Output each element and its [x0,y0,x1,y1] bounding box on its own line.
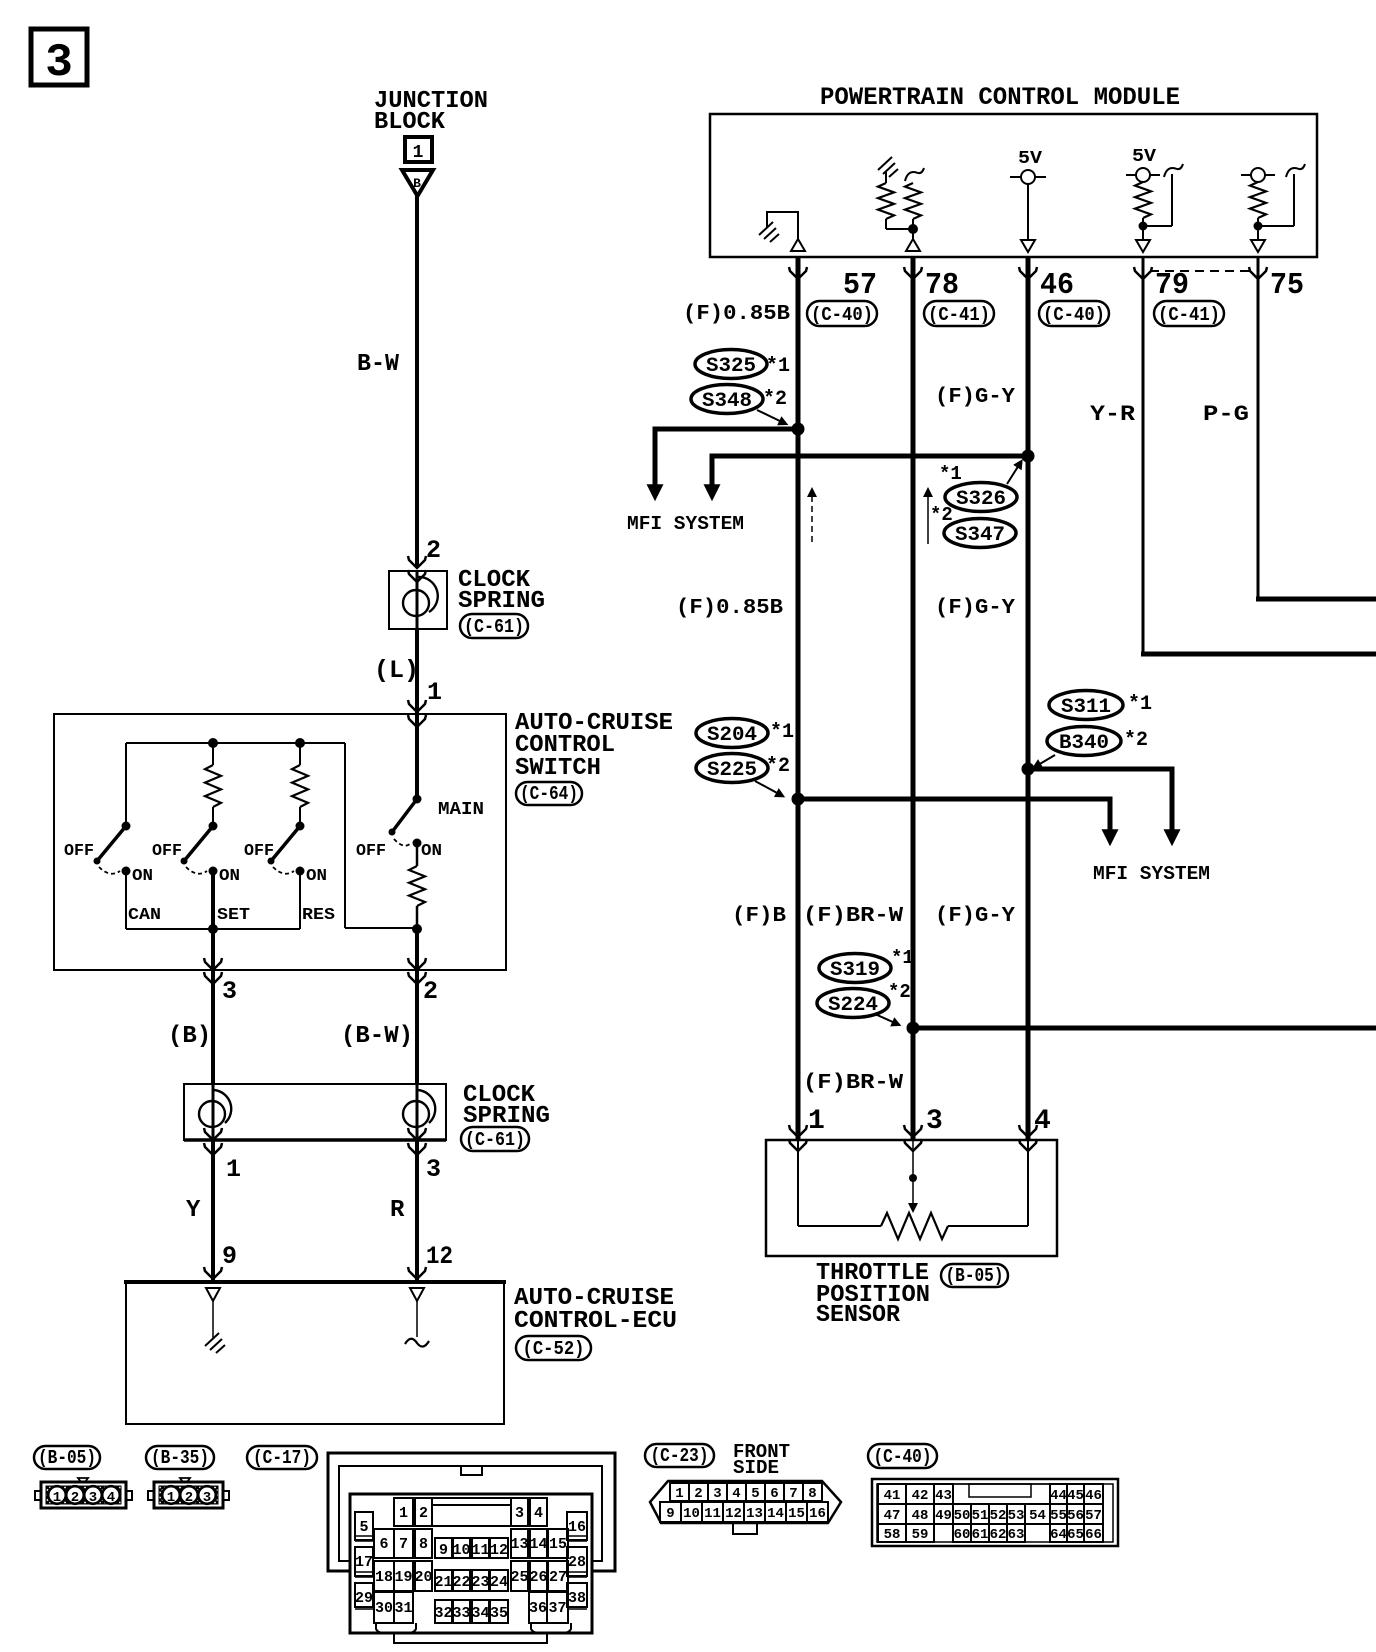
svg-text:42: 42 [912,1488,929,1504]
svg-text:SENSOR: SENSOR [816,1302,901,1329]
svg-text:56: 56 [1067,1508,1084,1524]
svg-text:47: 47 [884,1508,901,1524]
svg-text:30: 30 [375,1600,393,1617]
svg-text:3: 3 [713,1486,721,1502]
svg-text:(C-61): (C-61) [464,616,524,638]
svg-text:(B): (B) [168,1023,211,1050]
svg-text:SIDE: SIDE [733,1457,779,1479]
svg-text:S225: S225 [707,759,757,782]
svg-text:2: 2 [185,1490,193,1506]
svg-text:(B-W): (B-W) [341,1023,413,1050]
svg-text:20: 20 [414,1569,432,1586]
svg-text:ON: ON [219,867,240,886]
svg-text:*2: *2 [766,755,790,778]
svg-text:12: 12 [725,1506,742,1522]
svg-text:31: 31 [394,1600,412,1617]
svg-text:11: 11 [704,1506,721,1522]
svg-text:41: 41 [884,1488,901,1504]
svg-text:4: 4 [534,1505,543,1522]
svg-text:R: R [390,1197,405,1224]
svg-text:46: 46 [1085,1488,1102,1504]
svg-text:54: 54 [1029,1508,1046,1524]
svg-text:46: 46 [1040,268,1074,303]
svg-text:32: 32 [434,1605,452,1622]
svg-text:2: 2 [419,1505,428,1522]
svg-text:64: 64 [1050,1527,1067,1543]
svg-text:16: 16 [568,1519,586,1536]
svg-text:65: 65 [1067,1527,1084,1543]
svg-text:(F)BR-W: (F)BR-W [803,905,903,928]
svg-text:52: 52 [990,1508,1007,1524]
svg-text:(C-23): (C-23) [651,1445,709,1467]
svg-text:62: 62 [990,1527,1007,1543]
svg-text:3: 3 [515,1505,524,1522]
svg-text:(F)0.85B: (F)0.85B [683,303,790,326]
svg-text:61: 61 [972,1527,989,1543]
svg-text:2: 2 [423,977,438,1006]
svg-text:14: 14 [529,1536,547,1553]
svg-text:34: 34 [471,1605,489,1622]
svg-text:2: 2 [426,536,441,565]
svg-text:3: 3 [222,977,237,1006]
svg-text:*1: *1 [1128,693,1152,716]
svg-text:MAIN: MAIN [438,800,484,820]
svg-text:5V: 5V [1018,149,1042,169]
svg-text:48: 48 [912,1508,929,1524]
svg-text:(F)G-Y: (F)G-Y [935,386,1015,409]
svg-text:1: 1 [226,1155,241,1184]
svg-text:10: 10 [452,1542,470,1559]
svg-text:17: 17 [355,1554,373,1571]
svg-text:OFF: OFF [244,842,274,861]
svg-text:(F)B: (F)B [732,905,786,928]
svg-text:45: 45 [1067,1488,1084,1504]
svg-text:10: 10 [683,1506,700,1522]
svg-text:(B-05): (B-05) [38,1447,96,1469]
svg-text:16: 16 [809,1506,826,1522]
svg-text:21: 21 [434,1574,452,1591]
svg-text:(C-40): (C-40) [1043,304,1105,326]
svg-text:B340: B340 [1059,732,1109,755]
svg-text:59: 59 [912,1527,929,1543]
svg-text:(F)0.85B: (F)0.85B [676,597,783,620]
svg-text:B: B [413,176,421,191]
svg-text:(C-41): (C-41) [928,304,990,326]
svg-text:(L): (L) [374,656,419,685]
svg-text:8: 8 [419,1536,428,1553]
svg-text:SET: SET [217,906,250,925]
svg-text:5: 5 [751,1486,759,1502]
svg-text:(F)G-Y: (F)G-Y [935,597,1015,620]
svg-text:OFF: OFF [152,842,182,861]
svg-text:58: 58 [884,1527,901,1543]
svg-text:36: 36 [529,1600,547,1617]
svg-text:BLOCK: BLOCK [374,109,446,136]
svg-text:38: 38 [568,1590,586,1607]
svg-text:27: 27 [549,1569,567,1586]
svg-text:1: 1 [427,678,442,707]
svg-text:*1: *1 [770,721,794,744]
svg-text:ON: ON [132,867,153,886]
svg-text:S326: S326 [956,488,1006,511]
svg-text:1: 1 [808,1106,825,1137]
svg-text:6: 6 [770,1486,778,1502]
svg-text:5: 5 [359,1519,368,1536]
svg-text:2: 2 [694,1486,702,1502]
svg-text:1: 1 [413,143,424,163]
svg-text:26: 26 [529,1569,547,1586]
svg-text:(B-35): (B-35) [151,1447,209,1469]
svg-text:43: 43 [935,1488,952,1504]
svg-text:*2: *2 [763,388,787,411]
svg-text:9: 9 [666,1506,674,1522]
svg-text:(C-40): (C-40) [811,304,873,326]
svg-text:*2: *2 [930,504,953,526]
svg-text:1: 1 [399,1505,408,1522]
svg-text:57: 57 [843,268,877,303]
svg-text:(C-40): (C-40) [874,1446,932,1468]
svg-text:22: 22 [452,1574,470,1591]
svg-text:37: 37 [548,1600,566,1617]
svg-text:OFF: OFF [356,842,386,861]
svg-text:(C-52): (C-52) [523,1338,585,1360]
svg-text:*1: *1 [766,355,790,378]
svg-text:15: 15 [549,1536,567,1553]
svg-text:9: 9 [439,1542,448,1559]
svg-text:13: 13 [746,1506,763,1522]
svg-text:*2: *2 [1124,729,1148,752]
svg-text:78: 78 [925,268,959,303]
svg-text:S348: S348 [702,390,752,413]
svg-text:MFI SYSTEM: MFI SYSTEM [1093,863,1210,885]
svg-text:3: 3 [203,1490,211,1506]
svg-text:8: 8 [808,1486,816,1502]
svg-text:18: 18 [375,1569,393,1586]
svg-text:24: 24 [490,1574,508,1591]
svg-text:S319: S319 [830,959,880,982]
svg-text:1: 1 [167,1490,175,1506]
svg-text:15: 15 [788,1506,805,1522]
svg-text:S311: S311 [1061,696,1111,719]
svg-text:6: 6 [379,1536,388,1553]
svg-text:RES: RES [302,906,335,925]
svg-text:3: 3 [926,1106,943,1137]
svg-text:29: 29 [355,1590,373,1607]
svg-text:7: 7 [789,1486,797,1502]
svg-text:4: 4 [1034,1106,1051,1137]
svg-text:(F)G-Y: (F)G-Y [935,905,1015,928]
svg-text:S325: S325 [706,355,756,378]
svg-text:53: 53 [1008,1508,1025,1524]
svg-text:*1: *1 [939,463,962,485]
svg-text:14: 14 [767,1506,784,1522]
svg-text:POWERTRAIN CONTROL MODULE: POWERTRAIN CONTROL MODULE [820,83,1180,112]
svg-text:Y-R: Y-R [1090,402,1136,427]
svg-text:11: 11 [471,1542,489,1559]
svg-text:33: 33 [452,1605,470,1622]
svg-text:23: 23 [471,1574,489,1591]
svg-text:ON: ON [421,842,442,861]
svg-text:50: 50 [954,1508,971,1524]
svg-text:13: 13 [510,1536,528,1553]
svg-text:CAN: CAN [128,906,161,925]
svg-text:35: 35 [490,1605,508,1622]
svg-text:*2: *2 [888,981,911,1003]
svg-text:49: 49 [935,1508,952,1524]
svg-text:S224: S224 [828,994,878,1017]
svg-text:19: 19 [394,1569,412,1586]
svg-text:S347: S347 [955,524,1005,547]
svg-text:OFF: OFF [64,842,94,861]
svg-text:25: 25 [510,1569,528,1586]
svg-text:66: 66 [1085,1527,1102,1543]
svg-text:4: 4 [107,1490,115,1506]
svg-text:(C-61): (C-61) [465,1129,525,1151]
svg-text:3: 3 [426,1155,441,1184]
svg-text:(C-64): (C-64) [520,783,578,805]
svg-text:Y: Y [186,1197,201,1224]
svg-text:1: 1 [675,1486,683,1502]
svg-text:9: 9 [222,1242,237,1271]
svg-text:P-G: P-G [1203,402,1249,427]
svg-text:44: 44 [1050,1488,1067,1504]
svg-text:3: 3 [89,1490,97,1506]
svg-text:5V: 5V [1132,147,1156,167]
svg-text:63: 63 [1008,1527,1025,1543]
svg-text:*1: *1 [891,947,914,969]
svg-text:12: 12 [490,1542,508,1559]
svg-text:SPRING: SPRING [458,588,545,615]
svg-text:4: 4 [732,1486,740,1502]
svg-text:B-W: B-W [357,351,400,378]
svg-text:1: 1 [53,1490,61,1506]
svg-text:2: 2 [71,1490,79,1506]
svg-text:MFI SYSTEM: MFI SYSTEM [627,513,744,535]
svg-text:(C-41): (C-41) [1158,304,1220,326]
svg-text:CONTROL-ECU: CONTROL-ECU [514,1308,677,1335]
svg-text:SWITCH: SWITCH [515,755,601,782]
svg-text:3: 3 [45,37,73,89]
svg-text:60: 60 [954,1527,971,1543]
svg-text:28: 28 [568,1554,586,1571]
svg-text:57: 57 [1085,1508,1102,1524]
svg-text:(C-17): (C-17) [253,1447,311,1469]
svg-text:51: 51 [972,1508,989,1524]
svg-text:S204: S204 [707,724,757,747]
svg-text:7: 7 [399,1536,408,1553]
svg-text:75: 75 [1270,268,1304,303]
svg-text:55: 55 [1050,1508,1067,1524]
svg-text:ON: ON [306,867,327,886]
svg-text:79: 79 [1155,268,1189,303]
svg-text:12: 12 [426,1242,453,1271]
svg-text:(B-05): (B-05) [946,1265,1004,1287]
svg-text:(F)BR-W: (F)BR-W [803,1072,903,1095]
